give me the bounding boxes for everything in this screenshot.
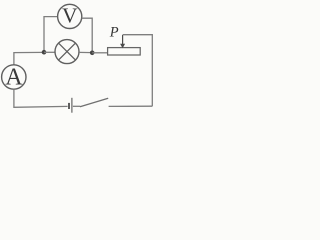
lamp — [55, 40, 79, 64]
svg-text:V: V — [62, 4, 78, 28]
wire switch to right corner — [109, 105, 153, 107]
switch (open blade) — [80, 98, 108, 107]
wire lamp to node B — [79, 51, 92, 53]
wire battery to switch — [73, 105, 80, 107]
ammeter A — [2, 64, 26, 90]
voltmeter V — [58, 4, 82, 29]
node B (right junction) — [90, 51, 95, 56]
wire ammeter down to battery — [14, 89, 68, 107]
wire from voltmeter down to right node — [82, 18, 93, 53]
rheostat P slider arrow — [120, 35, 125, 48]
node A (left junction) — [42, 50, 47, 55]
svg-text:P: P — [109, 24, 119, 40]
wire node B to rheostat — [92, 52, 107, 54]
wire from ammeter to left node — [14, 52, 44, 65]
wire from slider to right side down — [123, 35, 153, 107]
rheostat P body — [108, 48, 141, 55]
battery — [69, 98, 72, 113]
wire node A to lamp — [44, 51, 55, 53]
label P — [109, 24, 119, 40]
svg-text:A: A — [5, 64, 23, 90]
wire from left node up to voltmeter — [44, 17, 58, 53]
